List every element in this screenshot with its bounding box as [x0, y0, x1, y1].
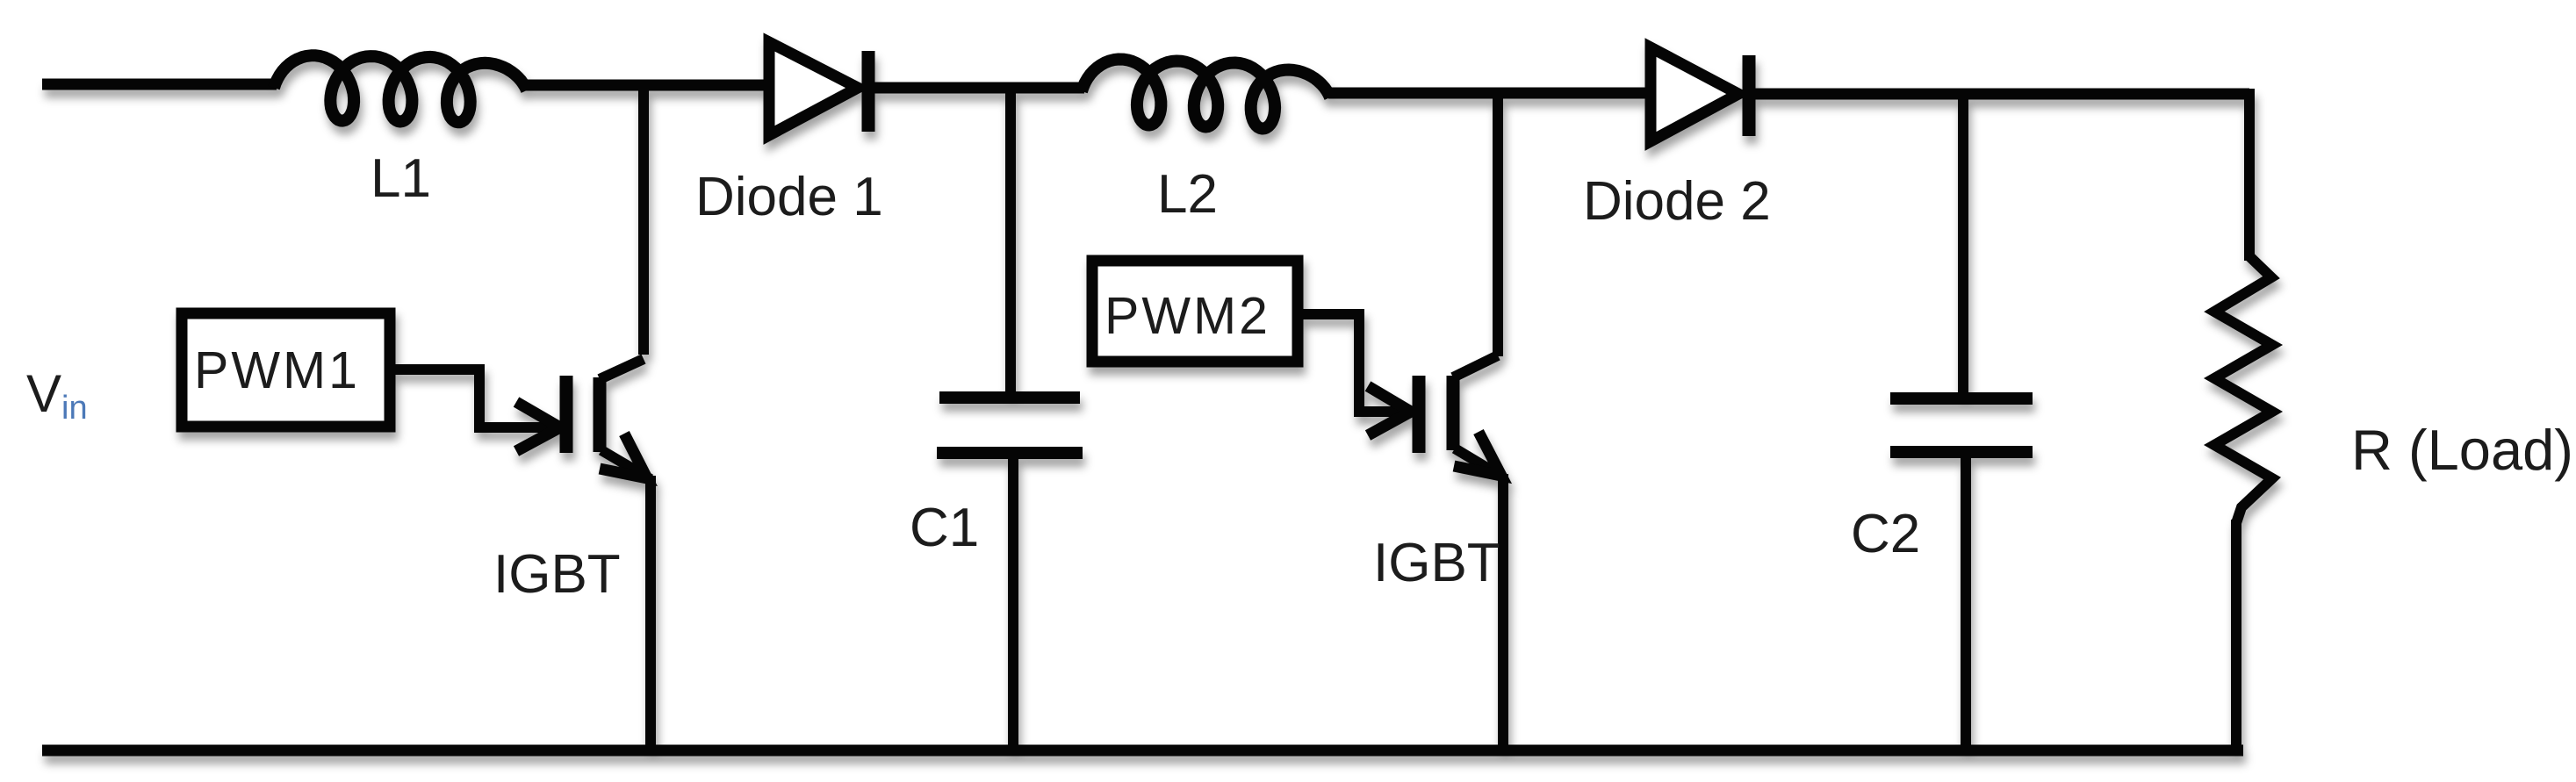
IGBT1 emitter arrowhead: [600, 434, 647, 478]
node C junction above IGBT2: [1493, 94, 1503, 356]
svg-text:IGBT: IGBT: [493, 544, 621, 605]
capacitor C1 top plate: [939, 391, 1080, 404]
node B junction above C1: [1005, 88, 1016, 395]
PWM2 box: [1092, 261, 1298, 362]
PWM1 box: [182, 313, 390, 427]
wire PWM1 to IGBT1 gate: [390, 369, 557, 427]
IGBT1 gate bar: [560, 376, 573, 453]
svg-text:L1: L1: [371, 148, 431, 209]
wire top-left input: [42, 79, 277, 90]
wire output corner down to resistor: [2244, 89, 2255, 261]
svg-text:R (Load): R (Load): [2351, 418, 2573, 482]
inductor L2: [1082, 60, 1330, 129]
wire C2 bottom to rail: [1961, 456, 1971, 750]
IGBT1 body bar: [594, 377, 607, 452]
resistor R load zigzag: [2214, 256, 2272, 523]
diode D2 (Diode 2): [1651, 47, 1749, 141]
IGBT1 emitter wire to rail: [645, 476, 656, 753]
svg-text:C2: C2: [1851, 504, 1920, 564]
wire Diode 2 cathode to output corner: [1749, 89, 2249, 100]
IGBT2 emitter arrowhead: [1454, 432, 1501, 476]
IGBT1 emitter lead: [601, 450, 651, 479]
IGBT2 collector lead: [1453, 355, 1498, 377]
IGBT2 gate bar: [1413, 376, 1426, 453]
wire L2 to Diode 2 anode: [1328, 88, 1651, 99]
svg-text:Diode 2: Diode 2: [1583, 171, 1771, 232]
wire Diode 1 cathode to L2: [868, 83, 1084, 94]
node A junction above IGBT1: [638, 88, 649, 355]
wire PWM2 to IGBT2 gate: [1296, 314, 1407, 412]
capacitor C2 top plate: [1890, 392, 2033, 405]
svg-text:C1: C1: [910, 498, 979, 558]
wire resistor bottom to ground rail: [2231, 520, 2241, 753]
wire L1 to Diode 1 anode: [525, 80, 766, 91]
wire C1 bottom to rail: [1008, 456, 1018, 750]
IGBT1 collector lead: [600, 359, 644, 379]
inductor L1: [274, 55, 527, 122]
node D junction above C2: [1958, 94, 1968, 395]
svg-text:PWM1: PWM1: [194, 341, 360, 399]
IGBT1 gate arrowhead: [516, 402, 560, 451]
IGBT2 emitter lead: [1455, 448, 1503, 477]
IGBT2 gate arrowhead: [1368, 386, 1411, 435]
svg-text:Diode 1: Diode 1: [695, 167, 883, 227]
svg-text:Vin: Vin: [26, 364, 88, 427]
capacitor C1 bottom plate: [937, 447, 1083, 459]
IGBT2 emitter wire to rail: [1498, 474, 1508, 753]
IGBT2 body bar: [1447, 376, 1460, 450]
svg-text:PWM2: PWM2: [1105, 287, 1270, 345]
diode D1 (Diode 1): [769, 42, 868, 135]
bottom ground rail: [42, 745, 2243, 757]
capacitor C2 bottom plate: [1890, 446, 2033, 458]
svg-text:IGBT: IGBT: [1373, 533, 1500, 593]
svg-text:L2: L2: [1157, 164, 1218, 225]
